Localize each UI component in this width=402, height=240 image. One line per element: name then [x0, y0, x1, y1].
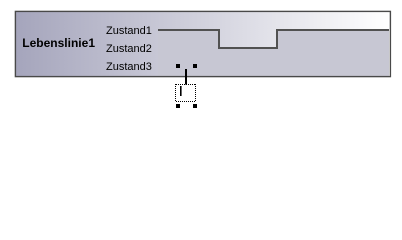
state region fill (area below timeline)	[158, 29, 389, 76]
svg-text:Zustand2: Zustand2	[106, 43, 152, 55]
selection handle bottom-left	[176, 104, 180, 108]
svg-text:Lebenslinie1: Lebenslinie1	[22, 36, 95, 50]
svg-text:Zustand3: Zustand3	[106, 61, 152, 73]
svg-text:Zustand1: Zustand1	[106, 25, 152, 37]
selection handle top-left	[176, 64, 180, 68]
connector line from lifeline to dragged element	[185, 69, 187, 85]
lifeline frame border	[15, 11, 390, 76]
selection handle top-right	[193, 64, 197, 68]
small state-line inside dashed box	[180, 86, 182, 96]
lifeline frame fill (gradient)	[15, 11, 390, 76]
dashed drag-outline box	[176, 84, 197, 102]
timeline (state line Zustand1-Zustand2-Zustand1)	[158, 30, 389, 48]
selection handle bottom-right	[193, 104, 197, 108]
